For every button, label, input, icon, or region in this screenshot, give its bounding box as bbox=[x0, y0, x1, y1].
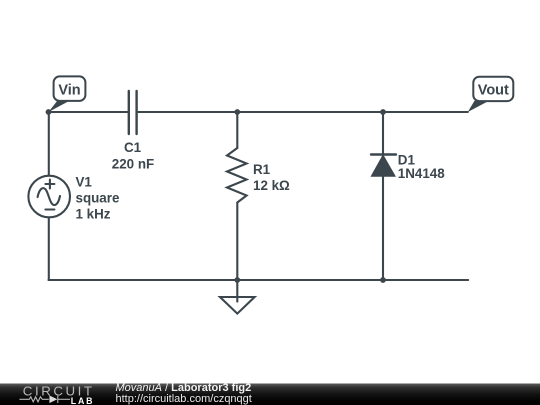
wire top rail left segment (Vin node to C1 left plate) bbox=[49, 111, 128, 113]
node flag Vout bbox=[468, 77, 514, 112]
svg-text:Vout: Vout bbox=[478, 83, 509, 99]
node junction bottom of D1 bbox=[380, 277, 386, 283]
label R1 value 12 kOhm bbox=[253, 162, 290, 193]
wire D1 bottom lead bbox=[382, 176, 384, 280]
CircuitLab logo bbox=[19, 383, 94, 405]
wire left column upper (Vin node to V1 top) bbox=[48, 112, 50, 176]
ground bbox=[220, 280, 255, 314]
diode D1 bbox=[371, 155, 396, 177]
svg-text:http://circuitlab.com/czqnqgt: http://circuitlab.com/czqnqgt bbox=[116, 393, 252, 405]
wire left column lower (V1 bottom to bottom rail) bbox=[48, 217, 50, 280]
node junction top of D1 bbox=[380, 109, 386, 115]
wire D1 top lead bbox=[382, 112, 384, 155]
label V1 square 1 kHz bbox=[76, 174, 120, 221]
footer bar bbox=[0, 384, 540, 405]
node flag Vin bbox=[49, 76, 86, 112]
svg-text:V1: V1 bbox=[76, 174, 93, 189]
svg-text:R1: R1 bbox=[253, 162, 271, 177]
attribution title text bbox=[116, 382, 252, 405]
wire R1 top lead bbox=[236, 112, 238, 148]
svg-text:LAB: LAB bbox=[71, 396, 94, 405]
node junction bottom of R1 / ground bbox=[234, 277, 240, 283]
svg-text:square: square bbox=[76, 190, 120, 205]
wire R1 bottom lead bbox=[236, 203, 238, 281]
svg-text:1N4148: 1N4148 bbox=[398, 166, 445, 181]
voltage source V1 bbox=[28, 176, 70, 218]
label C1 value 220 nF bbox=[112, 140, 154, 171]
label D1 value 1N4148 bbox=[398, 153, 445, 182]
svg-text:12 kΩ: 12 kΩ bbox=[253, 178, 290, 193]
svg-text:220 nF: 220 nF bbox=[112, 156, 154, 171]
node junction Vin/top-left bbox=[46, 109, 52, 115]
node junction top of R1 bbox=[234, 109, 240, 115]
svg-text:C1: C1 bbox=[124, 140, 142, 155]
capacitor C1 bbox=[129, 91, 137, 134]
resistor R1 bbox=[227, 148, 247, 203]
svg-text:1 kHz: 1 kHz bbox=[76, 206, 111, 221]
svg-text:Vin: Vin bbox=[58, 82, 80, 98]
wire bottom rail bbox=[49, 279, 469, 281]
wire top rail right segment (C1 right plate to Vout point) bbox=[138, 111, 468, 113]
